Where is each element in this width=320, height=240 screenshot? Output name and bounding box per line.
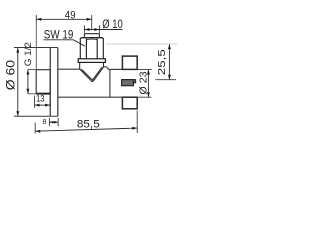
wire: flange top edge + dim extension bbox=[14, 47, 58, 49]
node: collar washer under nut bbox=[78, 59, 105, 63]
node: bonnet hex nut SW19 bbox=[80, 38, 103, 59]
dimension 8 (flange thickness) bbox=[43, 117, 59, 126]
svg-text:Ø 60: Ø 60 bbox=[4, 60, 18, 91]
svg-text:G 1/2: G 1/2 bbox=[23, 42, 33, 66]
node: wall flange rosette (side view) bbox=[50, 48, 58, 117]
node: G1/2 thread nipple bbox=[36, 70, 50, 94]
dimension 49 (top) bbox=[36, 10, 91, 70]
svg-text:Ø 10: Ø 10 bbox=[102, 17, 123, 31]
node: outlet compression nut lower half bbox=[122, 97, 137, 109]
wire: flange bottom edge + dim extension bbox=[14, 115, 58, 117]
svg-text:25,5: 25,5 bbox=[156, 49, 168, 75]
dimension G 1/2 (left of thread) bbox=[23, 42, 36, 94]
label SW 19 with leader bbox=[44, 29, 86, 47]
svg-text:49: 49 bbox=[65, 10, 76, 22]
wire: faint reference line top right bbox=[106, 43, 177, 45]
svg-text:13: 13 bbox=[36, 94, 45, 104]
node: outlet compression nut upper half bbox=[122, 56, 137, 69]
dimension Ø23 (outlet) bbox=[137, 70, 151, 98]
dimension 13 (thread length) bbox=[35, 94, 51, 108]
dimension Ø10 (top) bbox=[84, 17, 123, 33]
dimension 85,5 (bottom) bbox=[35, 111, 137, 134]
node: cap on top of nut (Ø10) bbox=[84, 34, 99, 38]
dimension Ø60 (left) bbox=[4, 48, 20, 116]
dimension 25,5 (right) bbox=[155, 44, 176, 79]
svg-text:85,5: 85,5 bbox=[77, 118, 100, 130]
node: pipe stub (dark) in outlet bbox=[122, 80, 136, 86]
svg-text:8: 8 bbox=[43, 117, 47, 126]
svg-text:Ø 23: Ø 23 bbox=[138, 71, 149, 95]
node: valve body bbox=[58, 67, 123, 97]
node: conical funnel to body (V shape) bbox=[80, 63, 104, 82]
